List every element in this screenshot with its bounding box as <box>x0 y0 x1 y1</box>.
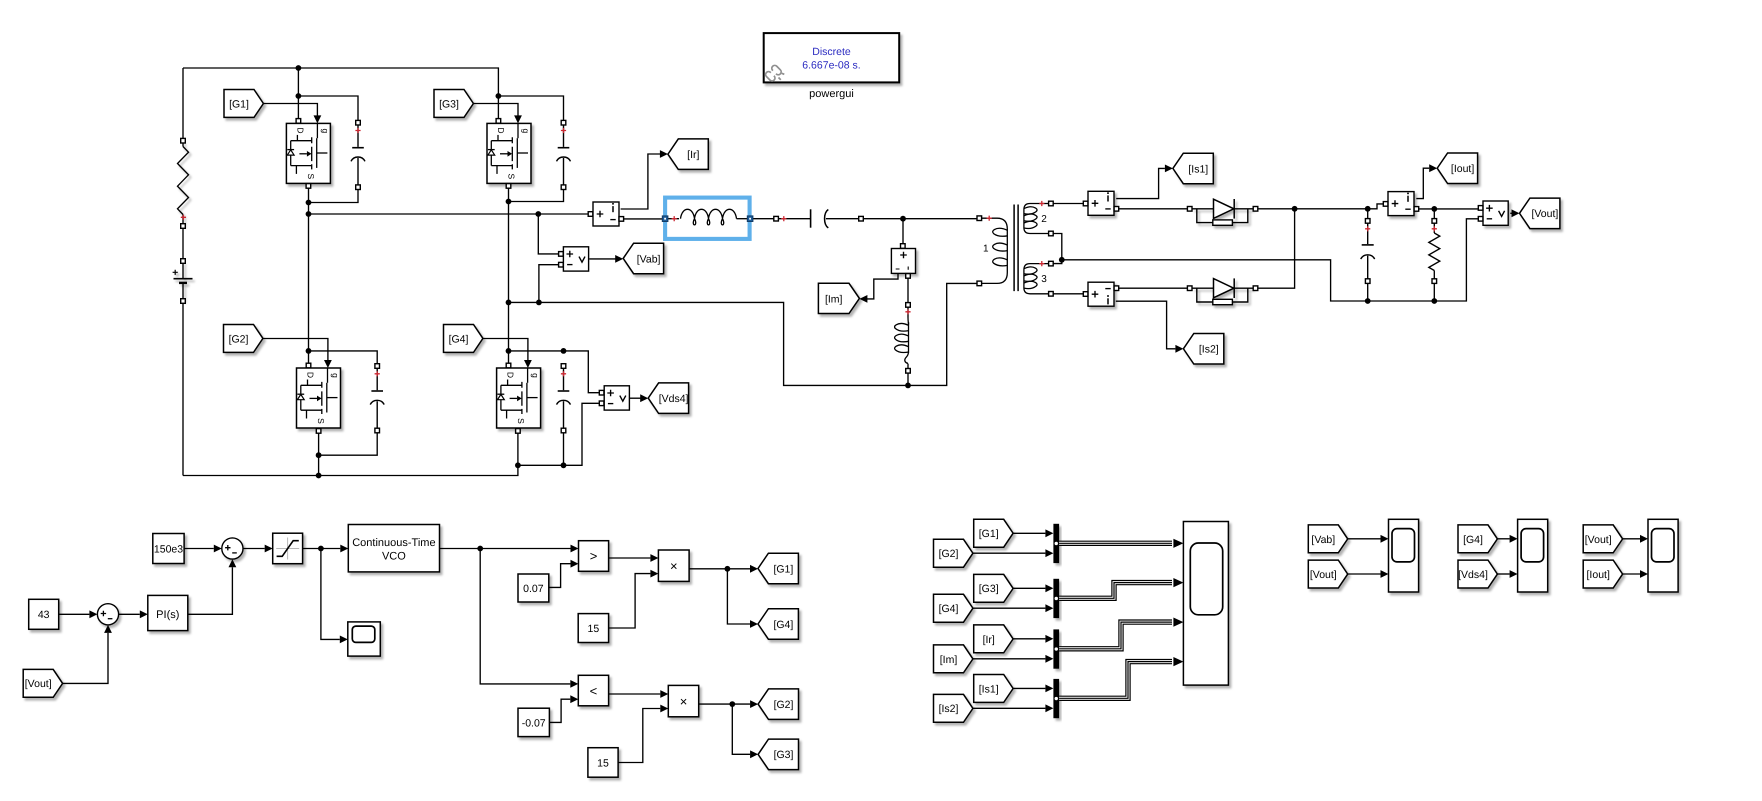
transformer secondary winding 2 <box>1024 204 1048 234</box>
wire Ir meter minus to inductor <box>621 218 663 220</box>
vector arrowhead into scope input 1 <box>1173 539 1183 548</box>
wire Vab tag to scope2 wire <box>1348 538 1381 540</box>
polarity mark Cr <box>781 216 786 221</box>
junction M1 drain / snubber <box>296 93 302 99</box>
wire M1 snubber top link <box>298 96 358 122</box>
wire Vab minus tap <box>539 265 560 303</box>
wire Iout meter minus to Vout meter <box>1416 208 1478 210</box>
MOSFET Q2 block <box>297 368 341 428</box>
goto tag Is2 <box>1183 334 1223 365</box>
Vds4 meter plus port <box>599 390 604 395</box>
series resonant capacitor Cr <box>779 209 859 228</box>
PI controller block <box>148 595 188 630</box>
wire Im meter tap <box>902 219 904 244</box>
saturation block <box>273 533 303 564</box>
svg-text:[G4]: [G4] <box>1463 534 1483 546</box>
Lr left port (selected) <box>662 216 668 222</box>
current measurement Ir block <box>593 202 619 226</box>
svg-text:[G4]: [G4] <box>773 619 793 631</box>
wire M3 snubber bottom link <box>509 187 564 201</box>
junction Vab plus tap <box>535 211 541 217</box>
wire node A to Ir meter <box>309 213 591 215</box>
wire diode D2 up to output node <box>1258 209 1294 288</box>
from tag Vab (scope) <box>1308 525 1347 553</box>
arrow into sum1 bottom <box>104 625 112 633</box>
wire Vout feedback to sum1 <box>63 633 108 684</box>
svg-text:[Is2]: [Is2] <box>939 703 959 715</box>
arrow into VCO <box>340 545 348 553</box>
constant -0.07 <box>518 708 549 736</box>
wire M2 snubber top link <box>309 351 378 366</box>
svg-text:[Ir]: [Ir] <box>687 149 699 161</box>
Is1 meter minus port <box>1114 207 1119 212</box>
arrow into scope4 in1 <box>1640 535 1648 543</box>
svg-text:[Vab]: [Vab] <box>1311 534 1335 546</box>
diode D1 cathode port <box>1253 207 1258 212</box>
wire Ir tag to mux3 <box>1013 638 1045 640</box>
Vout meter plus port <box>1478 206 1483 211</box>
diode D1 anode port <box>1187 207 1192 212</box>
voltage measurement Vds4 block <box>604 386 629 410</box>
voltage measurement Vab block <box>563 247 588 271</box>
wire sec2 minus / sec3 plus center tap <box>1053 234 1062 264</box>
arrow into lt in1 <box>570 680 578 688</box>
arrow into Vout tag <box>1512 209 1520 217</box>
arrow into scope4 in2 <box>1640 570 1648 578</box>
svg-text:[G3]: [G3] <box>774 749 794 761</box>
wire Lm to return rail <box>907 373 909 386</box>
wire M1 drain drop <box>297 68 299 120</box>
arrow into G3 goto <box>750 750 758 758</box>
arrow into mux2 in1 <box>1045 584 1053 592</box>
arrow into scope2 in2 <box>1381 570 1389 578</box>
from tag G2 <box>224 325 263 353</box>
Cs1 top port <box>356 120 361 125</box>
from tag Im (mux) <box>934 645 973 673</box>
wire saturation branch to scope <box>321 549 340 640</box>
arrow into product1 in1 <box>650 554 658 562</box>
magnetizing inductor Lm <box>895 307 909 369</box>
Cout bottom port <box>1365 279 1370 284</box>
wire sec2 plus to Is1 meter <box>1053 203 1083 205</box>
svg-text:15: 15 <box>597 757 609 769</box>
MOSFET Q4 block <box>497 368 541 428</box>
constant 43 <box>29 599 59 629</box>
arrow into mux1 in2 <box>1045 549 1053 557</box>
junction M3 drain / snubber <box>496 93 502 99</box>
junction tank / Im tap <box>900 216 906 222</box>
Continuous-Time VCO block <box>348 525 439 572</box>
Vout meter minus port <box>1478 217 1483 222</box>
polarity mark Lr <box>672 216 677 221</box>
arrow into G4 goto <box>750 620 758 628</box>
wire VCO to gt block <box>440 548 571 550</box>
scope block Vab/Vout <box>1389 519 1419 592</box>
vector signal mux1 to scope <box>1059 541 1172 546</box>
transformer port 2- <box>1049 231 1054 236</box>
wire G3 gate wire <box>473 104 518 117</box>
mux 2 (G3 G4) <box>1053 579 1059 618</box>
junction M2 source / Cs2 <box>316 452 322 458</box>
R DC-link bottom port <box>181 224 186 229</box>
svg-text:[G1]: [G1] <box>229 98 249 110</box>
current measurement Iout block <box>1388 192 1414 216</box>
Cs2 bottom port <box>375 428 380 433</box>
Vab meter minus port <box>559 262 564 267</box>
mux 3 (Ir Im) <box>1053 629 1059 668</box>
vector arrowhead into scope input 4 <box>1173 657 1183 666</box>
Im meter minus port <box>906 274 911 279</box>
svg-text:×: × <box>680 694 688 709</box>
arrow into gt in1 <box>571 545 579 553</box>
svg-text:[G2]: [G2] <box>939 548 959 560</box>
Vab meter plus port <box>559 252 564 257</box>
resonant inductor Lr coil <box>668 218 679 220</box>
junction Cout bottom <box>1365 298 1371 304</box>
svg-text:VCO: VCO <box>382 551 406 563</box>
junction node A / Cs1 <box>306 200 312 206</box>
arrow into scope2 in1 <box>1381 535 1389 543</box>
arrow into Vab tag <box>615 255 623 263</box>
junction Lm / return rail <box>905 383 911 389</box>
vector signal mux2 to scope <box>1059 583 1172 599</box>
goto tag G4 (control) <box>758 609 798 640</box>
polarity mark Cs3 <box>561 128 566 133</box>
wire M2 snubber bottom link <box>319 431 378 456</box>
svg-text:[Vout]: [Vout] <box>1585 534 1612 546</box>
junction node A tank tap <box>306 211 312 217</box>
transformer port 1+ <box>977 216 982 221</box>
Is1 meter plus port <box>1083 201 1088 206</box>
Cs3 top port <box>561 120 566 125</box>
M1 drain port <box>296 119 301 124</box>
svg-text:[Iout]: [Iout] <box>1587 569 1610 581</box>
Lm top port <box>906 303 911 308</box>
wire diode D1 to output node <box>1258 204 1383 209</box>
svg-text:15: 15 <box>588 623 600 635</box>
arrow into G2 goto <box>750 700 758 708</box>
wire saturation to VCO <box>303 548 341 550</box>
wire series cap to transformer <box>864 218 978 220</box>
polarity mark R DC-link <box>181 215 186 220</box>
wire bottom DC rail <box>183 465 518 475</box>
Rload bottom port <box>1432 279 1437 284</box>
junction top rail / M1 drain <box>296 65 302 71</box>
M1 source port <box>306 184 311 189</box>
wire Vds4 meter output <box>630 397 642 399</box>
wire M4 snubber top link <box>509 351 599 393</box>
wire M4 source to Vds4 minus <box>518 403 599 465</box>
wire Is2 tag to mux4 <box>973 707 1046 709</box>
svg-text:[G2]: [G2] <box>229 333 249 345</box>
M2 source port <box>316 429 321 434</box>
svg-text:[Vab]: [Vab] <box>637 253 661 265</box>
scope block Vout/Iout <box>1648 519 1678 592</box>
Cs1 bottom port <box>356 185 361 190</box>
transformer secondary winding 3 <box>1024 264 1048 294</box>
diode D2 anode port <box>1187 286 1192 291</box>
goto tag G1 (control) <box>758 553 798 584</box>
arrow into Im tag <box>859 295 867 303</box>
svg-text:6.667e-08 s.: 6.667e-08 s. <box>802 60 860 72</box>
svg-text:43: 43 <box>38 609 50 621</box>
snubber cap Cs1 <box>351 125 365 185</box>
wire sec3 minus to Is2 meter <box>1053 293 1083 295</box>
vector signal mux4 to scope <box>1059 662 1172 699</box>
arrow into product1 in2 <box>650 570 658 578</box>
from tag Ir (mux) <box>974 625 1013 653</box>
svg-text:[Is1]: [Is1] <box>1188 163 1208 175</box>
from tag Is1 (mux) <box>974 675 1013 703</box>
junction M2 drain / Cs2 <box>306 348 312 354</box>
svg-text:>: > <box>590 549 598 564</box>
arrow into scope3 in2 <box>1510 570 1518 578</box>
relational operator lt block <box>578 675 608 706</box>
wire Vab plus tap <box>538 214 560 254</box>
wire gt to product1 <box>609 557 651 559</box>
junction node B / Cs3 <box>506 199 512 205</box>
from tag G2 (mux) <box>934 539 973 567</box>
wire DC source column upper <box>182 68 184 140</box>
svg-text:[Ir]: [Ir] <box>983 634 995 646</box>
wire branch to G4 goto <box>727 569 750 624</box>
svg-text:[G1]: [G1] <box>979 528 999 540</box>
wire G2 tag to mux1 <box>973 552 1046 554</box>
Cs2 top port <box>375 364 380 369</box>
Is2 meter plus port <box>1083 292 1088 297</box>
junction Cs4 top / Vds4 plus <box>561 348 567 354</box>
wire G3 tag to mux2 <box>1013 587 1045 589</box>
svg-text:Continuous-Time: Continuous-Time <box>352 537 435 549</box>
arrow into mux3 in1 <box>1045 635 1053 643</box>
wire Cout bottom link <box>1367 284 1369 302</box>
wire Vout tag to scope4 wire <box>1623 538 1640 540</box>
arrow into scope3 in1 <box>1510 535 1518 543</box>
Cout top port <box>1365 219 1370 224</box>
wire Im tag to mux3 <box>973 658 1046 660</box>
arrow into product2 in1 <box>660 690 668 698</box>
vector signal mux3 to scope <box>1059 622 1172 649</box>
junction Cs4 bottom <box>561 462 567 468</box>
arrow into PI <box>140 610 148 618</box>
wire const 0.07 to gt <box>549 564 571 588</box>
wire sum2 to saturation <box>243 548 265 550</box>
wire M2 source drop <box>318 431 320 476</box>
wire node B vertical <box>508 187 510 365</box>
junction center tap <box>1059 257 1065 263</box>
junction M4 source node <box>515 462 521 468</box>
svg-text:[G4]: [G4] <box>449 333 469 345</box>
wire lt to product2 <box>609 693 661 695</box>
wire G1 gate wire <box>264 104 318 117</box>
goto tag Vds4 <box>648 383 688 414</box>
wire const 15b to product2 <box>618 709 660 763</box>
polarity mark Cs2 <box>375 371 380 376</box>
wire Is1 i output to Is1 tag <box>1116 168 1165 198</box>
wire Im meter to Lm <box>907 277 909 303</box>
scope block (VCO input) <box>348 622 381 656</box>
polarity mark Cout <box>1365 226 1370 231</box>
wire Is1 minus to diode D1 <box>1116 208 1187 210</box>
wire const 150e3 to sum2 <box>184 548 214 550</box>
goto tag Vab <box>623 243 663 274</box>
junction product2 output <box>729 701 735 707</box>
Rload top port <box>1432 219 1437 224</box>
from tag G1 <box>224 90 263 118</box>
wire M4 snubber bottom link <box>563 431 565 466</box>
goto tag G2 (control) <box>758 689 798 720</box>
arrow into mux1 in1 <box>1045 529 1053 537</box>
arrow into mux4 in1 <box>1045 685 1053 693</box>
Cs4 top port <box>561 364 566 369</box>
arrow into Is2 tag <box>1175 345 1183 353</box>
junction product1 output <box>725 566 731 572</box>
from tag G4 (scope) <box>1458 525 1497 553</box>
svg-text:2: 2 <box>1041 214 1047 225</box>
polarity mark Cs4 <box>561 371 566 376</box>
junction M2 source / rail <box>316 473 322 479</box>
product block 2 <box>668 685 698 716</box>
svg-text:[Vout]: [Vout] <box>1310 569 1337 581</box>
arrow into Iout tag <box>1429 164 1437 172</box>
constant 15b <box>588 748 618 778</box>
Lr right port (selected) <box>747 216 753 222</box>
wire resistor-to-battery link <box>182 226 184 261</box>
Iout meter minus port <box>1414 207 1419 212</box>
arrow into Ir tag <box>660 150 668 158</box>
junction Vab minus tap <box>536 300 542 306</box>
wire load resistor hang link <box>1433 209 1435 218</box>
current measurement Is2 block (flipped) <box>1088 282 1114 306</box>
svg-text:[Im]: [Im] <box>825 293 843 305</box>
product block 1 <box>658 550 689 581</box>
arrow into lt in2 <box>570 695 578 703</box>
M3 drain port <box>496 119 501 124</box>
from tag Is2 (mux) <box>934 694 973 722</box>
junction Cout top <box>1365 206 1371 212</box>
M4 source port <box>516 429 521 434</box>
constant 0.07 <box>518 574 549 602</box>
polarity mark transformer 3 <box>1039 261 1044 266</box>
from tag G4 <box>444 325 483 353</box>
arrow into saturation <box>265 545 273 553</box>
mux 4 (Is1 Is2) <box>1053 679 1059 718</box>
wire top DC rail <box>183 68 498 96</box>
junction VCO branch <box>477 546 483 552</box>
junction diode outputs <box>1292 206 1298 212</box>
MOSFET Q1 block <box>286 123 330 183</box>
wire M3 snubber top link <box>498 96 563 122</box>
M3 source port <box>506 184 511 189</box>
constant 15a <box>578 614 608 643</box>
wire node B return to transformer <box>509 283 977 385</box>
svg-text:0.07: 0.07 <box>523 583 544 595</box>
transformer primary winding 1 <box>982 218 1007 283</box>
svg-text:powergui: powergui <box>809 88 854 100</box>
goto tag Is1 <box>1173 153 1213 184</box>
wire Im meter signal to Im tag <box>866 274 898 299</box>
goto tag Vout <box>1520 198 1560 229</box>
junction saturation branch <box>318 546 324 552</box>
polarity mark Lm <box>905 309 910 314</box>
junction Rload bottom <box>1431 298 1437 304</box>
gate arrow Q1 <box>314 115 322 123</box>
scope block G4/Vds4 <box>1518 519 1548 592</box>
wire const -0.07 to lt <box>549 699 570 722</box>
arrow into sum2 left <box>214 545 222 553</box>
transformer T1 core <box>1014 205 1018 292</box>
svg-text:[Vds4]: [Vds4] <box>659 393 689 405</box>
wire M3 drain drop <box>497 96 499 120</box>
svg-text:[G3]: [G3] <box>439 98 459 110</box>
svg-text:[Im]: [Im] <box>940 654 958 666</box>
wire product1 to G1 goto <box>689 568 750 570</box>
from tag Vout (scope a) <box>1308 560 1347 588</box>
Ir meter minus port <box>619 217 624 222</box>
goto tag Iout <box>1437 153 1477 184</box>
powergui block <box>764 33 900 82</box>
Im meter plus port <box>901 244 906 249</box>
vector arrowhead into scope input 2 <box>1173 578 1183 587</box>
Is2 meter minus port <box>1114 286 1119 291</box>
snubber cap Cs3 <box>557 125 571 185</box>
wire G4 tag to mux2 <box>973 607 1046 609</box>
svg-text:PI(s): PI(s) <box>156 609 179 621</box>
relational operator gt block <box>579 541 609 572</box>
wire PI to sum2 <box>188 567 233 614</box>
wire product2 to G2 goto <box>699 703 750 705</box>
wire Cout top link <box>1367 209 1369 218</box>
MOSFET Q3 block <box>487 123 531 183</box>
wire G1 tag to mux1 <box>1013 532 1045 534</box>
output capacitor Cout branch <box>1361 223 1375 279</box>
svg-text:3: 3 <box>1041 274 1047 285</box>
wire G2 gate wire <box>263 339 328 361</box>
R DC-link top port <box>181 138 186 143</box>
polarity mark transformer 1 <box>987 216 992 221</box>
arrow into mux3 in2 <box>1045 655 1053 663</box>
junction Rload top <box>1431 206 1437 212</box>
arrow into sum2 bottom <box>229 559 237 567</box>
wire Vab meter output <box>589 258 616 260</box>
sum block 1 <box>97 604 118 625</box>
svg-text:[Is1]: [Is1] <box>979 683 999 695</box>
wire Vout meter output <box>1510 212 1511 214</box>
wire Vds4 tag to scope3 wire <box>1497 573 1509 575</box>
svg-text:1: 1 <box>983 244 989 255</box>
transformer port 3+ <box>1049 261 1054 266</box>
wire M1 snubber bottom link <box>309 187 359 202</box>
svg-text:<: < <box>590 684 598 699</box>
battery minus port <box>181 299 186 304</box>
polarity mark Rload <box>1432 226 1437 231</box>
from tag Vout feedback <box>23 669 62 697</box>
wire Iout tag to scope4 wire <box>1623 573 1640 575</box>
svg-text:-0.07: -0.07 <box>522 717 546 729</box>
goto tag G3 (control) <box>758 739 798 770</box>
svg-text:[Iout]: [Iout] <box>1451 163 1474 175</box>
selection highlight box around resonant inductor Lr <box>665 198 750 239</box>
svg-text:[G2]: [G2] <box>774 699 794 711</box>
wire G4 tag to scope3 wire <box>1497 538 1509 540</box>
current measurement Im block (rotated) <box>891 249 915 274</box>
current measurement Is1 block <box>1088 191 1114 215</box>
arrow into mux2 in2 <box>1045 604 1053 612</box>
load resistor Rload (vertical) <box>1429 221 1440 281</box>
transformer port 3- <box>1049 292 1054 297</box>
snubber cap Cs4 <box>557 368 571 428</box>
main 4-input scope block <box>1183 522 1228 686</box>
